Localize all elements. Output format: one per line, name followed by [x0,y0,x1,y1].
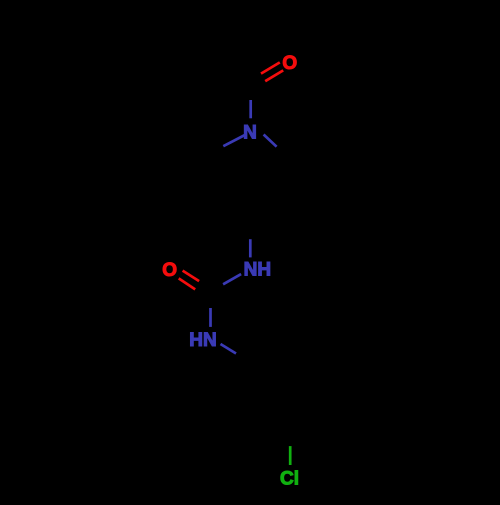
bond C7-N1 blue half (amide C to piperidine N) [249,100,252,118]
bond C8-N3 blue half (urea carbon to anilide HN) [209,308,212,327]
bond C7=O1 outer red half (double bond line 1) [261,62,280,73]
svg-text:O: O [282,53,297,74]
bond C4-N2 blue half (piperidine C4 to urea NH) [249,239,252,257]
svg-text:N: N [243,122,257,143]
bond C8=O2 lower red half (double bond line 2) [179,278,196,289]
svg-text:O: O [162,260,177,281]
bond C12-Cl green half (phenyl carbon to chlorine) [289,446,292,465]
bond C8=O2 upper red half (double bond line 1) [183,271,200,282]
bond N1-C6 blue half (ring bond, down-right) [264,135,277,147]
bond C7=O1 inner red half (double bond line 2) [265,70,283,81]
bond N2-C8 blue half (NH to urea carbonyl carbon) [223,274,241,284]
bond N1-C2 blue half (ring bond, down-left) [223,134,247,146]
svg-text:Cl: Cl [280,469,299,490]
bond N3-C9 blue half (HN to phenyl ipso carbon) [221,344,237,354]
svg-text:HN: HN [189,330,216,351]
svg-text:NH: NH [244,260,271,281]
